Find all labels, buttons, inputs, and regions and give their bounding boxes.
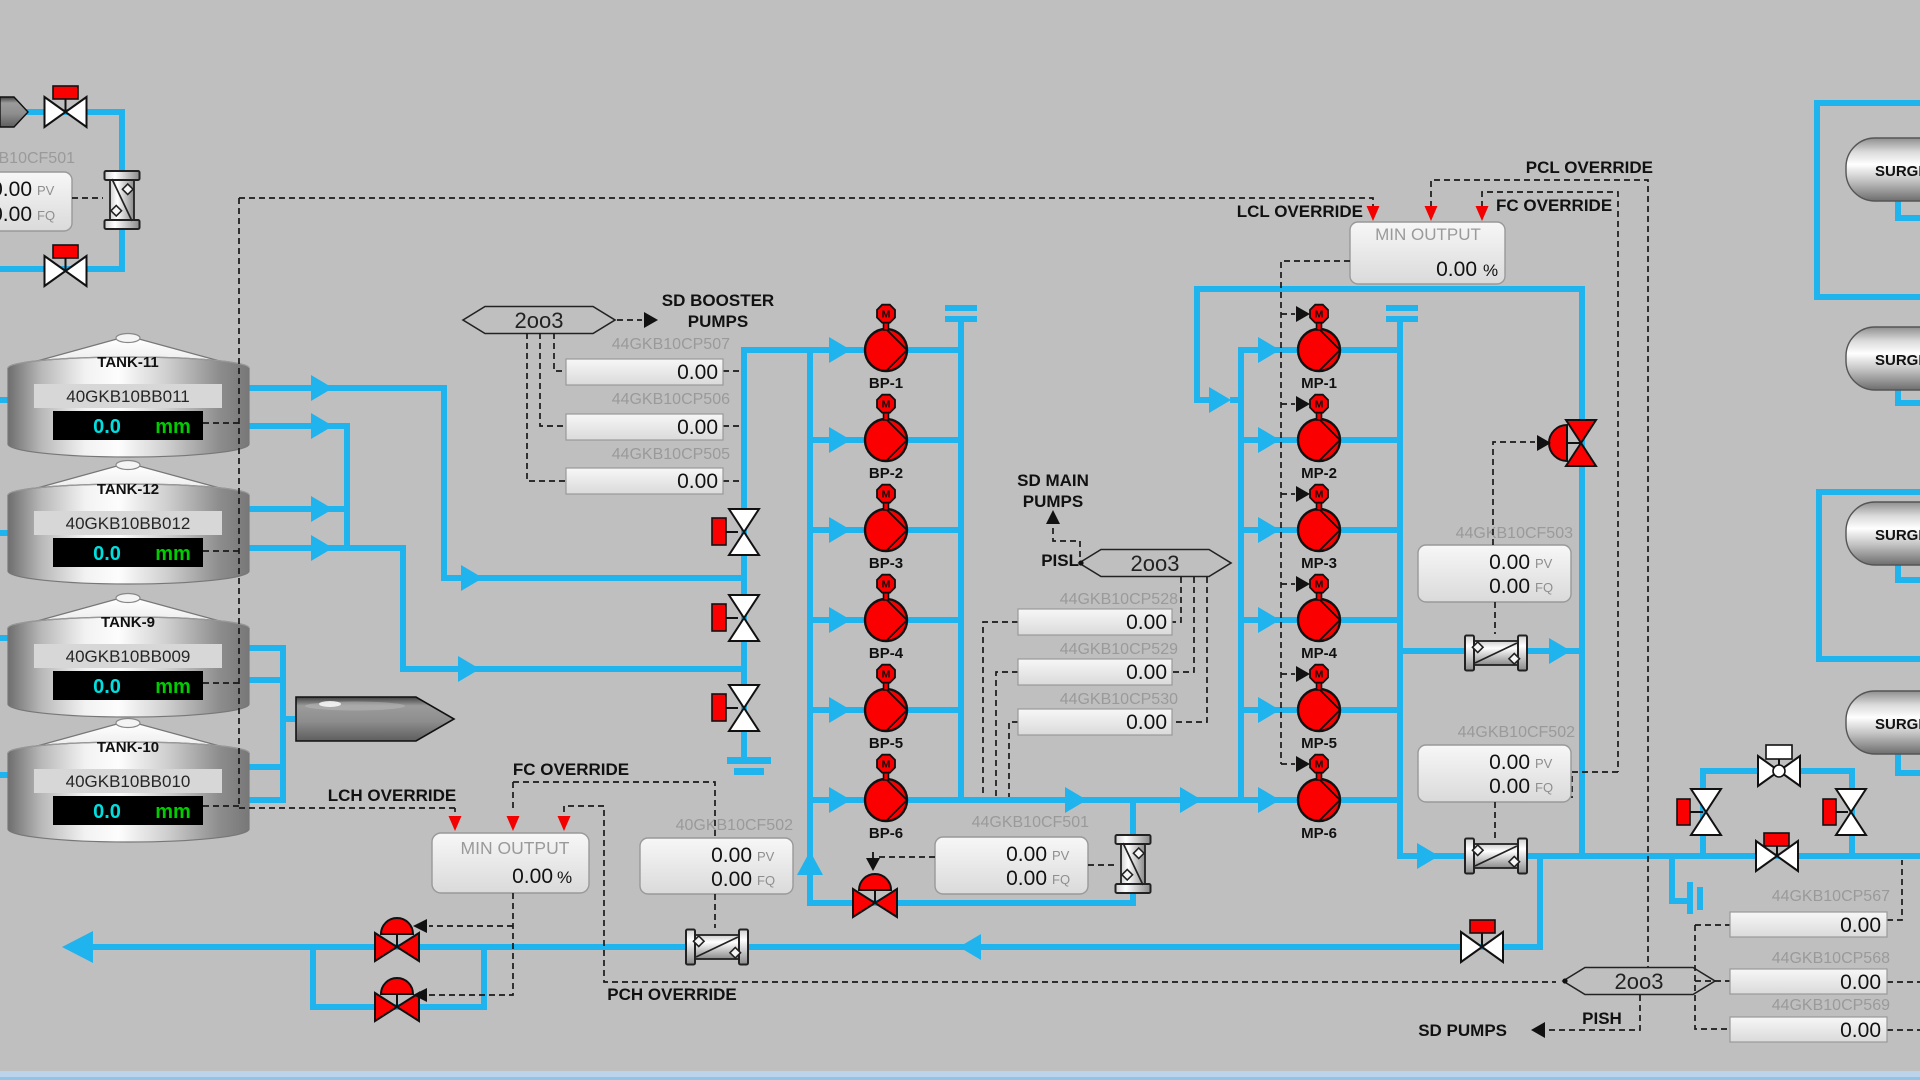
wire surge tank 1 frame [1817,103,1920,297]
dashed CF502 left box to return strainer [714,894,716,928]
wire header1 to header2 link [744,347,812,353]
dashed box to top-left meter [72,197,103,199]
wire TANK-9 left inlet stub [0,635,12,641]
control valve return line B [375,978,419,1021]
flow meter 44GKB10CF501 vertical [1116,835,1151,893]
pump MP-3 [1298,485,1340,572]
label LCL OVERRIDE [1237,202,1363,221]
svg-text:FQ: FQ [37,208,55,223]
label FC OVERRIDE left [513,760,629,779]
inlet arrow top-left (link from other display) [0,97,28,127]
pipe end symbol above booster discharge header [945,305,977,322]
wire strainer branch to recirculation riser [1400,638,1579,664]
svg-text:44GKB10CP567: 44GKB10CP567 [1772,888,1890,905]
box 44GKB10CF501 PV FQ [935,837,1088,894]
svg-text:0.00: 0.00 [1126,711,1167,734]
wire surge tank 3 outlet [1898,563,1920,580]
surge tank 1 [1846,138,1920,201]
pump BP-2 [865,395,907,482]
svg-text:SD PUMPS: SD PUMPS [1418,1021,1507,1040]
actuator arrow of booster recirculation valve [866,852,880,871]
svg-text:2oo3: 2oo3 [1615,969,1664,994]
dashed arrow PISL hexagon to SD MAIN PUMPS [1046,510,1080,557]
svg-text:FQ: FQ [1535,580,1553,595]
svg-text:0.00: 0.00 [1489,751,1530,774]
svg-text:40GKB10BB011: 40GKB10BB011 [66,387,190,406]
valve inlet top-left with red actuator box [45,86,87,127]
label 44GKB10CP530 [1060,691,1178,708]
label PISL [1041,551,1079,570]
svg-text:LCL OVERRIDE: LCL OVERRIDE [1237,202,1363,221]
svg-text:44GKB10CP505: 44GKB10CP505 [612,446,730,463]
box MIN OUTPUT left [432,833,589,893]
svg-text:40GKB10BB012: 40GKB10BB012 [66,514,191,533]
svg-text:MP-3: MP-3 [1301,555,1337,572]
svg-text:0.00: 0.00 [1489,551,1530,574]
svg-text:44GKB10CP569: 44GKB10CP569 [1772,997,1890,1014]
svg-text:MP-6: MP-6 [1301,825,1337,842]
arrow into return valve B [413,988,427,1002]
label 40GKB10CF501 top-left [0,150,75,167]
wire BP-4 branch and discharge [812,607,961,633]
svg-text:FC OVERRIDE: FC OVERRIDE [1496,196,1612,215]
svg-text:PV: PV [1052,848,1070,863]
dashed FC override left network [513,782,715,836]
arrows into MP motors [1296,306,1310,772]
svg-text:MP-4: MP-4 [1301,645,1337,662]
wire surge tank 2 outlet [1898,388,1920,403]
wire TANK-9 outlets to collector [246,648,283,680]
label 44GKB10CP529 [1060,641,1178,658]
wire main pumps suction header [1238,347,1244,800]
svg-text:LCH OVERRIDE: LCH OVERRIDE [328,786,456,805]
dashed FC override line right [1482,192,1618,798]
svg-text:BP-3: BP-3 [869,555,903,572]
pump MP-1 [1298,305,1340,392]
pipe end symbol below suction header [727,757,771,775]
dashed stub TANK-12 level to trunk [203,550,239,552]
wire TANK-11 left inlet stub [0,397,12,403]
box 44GKB10CP530 [1018,709,1172,735]
valve ring top with white box [1758,745,1800,786]
label 44GKB10CP568 [1772,950,1890,967]
box 44GKB10CP567 [1730,912,1887,937]
arrow into FC valve [1537,435,1551,451]
svg-text:0.00: 0.00 [1840,1019,1881,1042]
hexagon 2oo3 booster trip [463,307,615,334]
wire return line to tanks [62,931,1543,963]
svg-text:44GKB10CF503: 44GKB10CF503 [1456,525,1574,542]
label FC OVERRIDE right [1496,196,1612,215]
pump MP-2 [1298,395,1340,482]
red arrow PCL into MIN OUTPUT right [1425,206,1438,221]
svg-text:MP-2: MP-2 [1301,465,1337,482]
svg-text:%: % [1483,261,1498,280]
red arrow FC into MIN OUTPUT right [1476,206,1489,221]
label 44GKB10CP506 [612,391,730,408]
tank TANK-11 [8,334,249,458]
svg-text:FQ: FQ [757,873,775,888]
wire inlet top-left to valve and meter [24,112,122,172]
wire BP-3 branch and discharge [812,517,961,543]
label PCL OVERRIDE [1526,158,1653,177]
pump BP-5 [865,665,907,752]
wire TANK-12 left inlet stub [0,530,12,536]
svg-text:0.00: 0.00 [1840,971,1881,994]
dashed CF503 box to FC valve and strainer [1493,442,1535,634]
label LCH OVERRIDE [328,786,456,805]
dashed PISH hexagon to SD PUMPS [1531,995,1640,1038]
dashed LCL override line to MIN OUTPUT right [239,198,1373,207]
surge tank 4 [1846,691,1920,754]
svg-text:44GKB10CP507: 44GKB10CP507 [612,336,730,353]
wire BP-5 branch and discharge [812,697,961,723]
svg-text:PV: PV [757,849,775,864]
wire MP-1 branch and discharge [1241,337,1400,363]
pump BP-6 [865,755,907,842]
wire surge tank 3 frame [1819,492,1920,659]
wire BP-1 branch and discharge [812,337,961,363]
box 44GKB10CP569 [1730,1017,1887,1042]
pump BP-4 [865,575,907,662]
wire main discharge line to surge tanks [1397,843,1920,869]
svg-text:2oo3: 2oo3 [515,308,564,333]
svg-text:PUMPS: PUMPS [1023,492,1083,511]
label 44GKB10CP507 [612,336,730,353]
svg-text:44GKB10CP568: 44GKB10CP568 [1772,950,1890,967]
wire surge tank 4 outlet [1898,752,1920,773]
svg-text:SURGE TANK: SURGE TANK [1875,352,1920,369]
wire TANK-11 top outlet to booster header [246,375,747,591]
svg-text:MP-1: MP-1 [1301,375,1337,392]
svg-text:PCH OVERRIDE: PCH OVERRIDE [607,985,736,1004]
pipe end symbol above main discharge header [1386,305,1418,322]
svg-text:0.00: 0.00 [512,865,553,888]
box 40GKB10CF502 PV FQ left [640,838,793,894]
svg-text:mm: mm [155,416,191,438]
wire TANK-12 top outlet [246,496,350,522]
pipe end symbol right of drain stub [1687,882,1703,914]
box 40GKB10CF501 PV FQ [0,172,72,231]
wire main pumps discharge header [1397,322,1403,856]
svg-text:40GKB10BB009: 40GKB10BB009 [66,647,191,666]
svg-text:0.00: 0.00 [0,178,32,201]
svg-text:40GKB10CF502: 40GKB10CF502 [676,817,794,834]
box 44GKB10CP529 [1018,659,1172,685]
valve ring left [1677,789,1721,835]
wire branch down to return line [1537,853,1543,947]
wire main pumps recirculation return entry [1197,289,1240,413]
recirculation up arrow on feed header [797,851,823,875]
svg-text:SD MAIN: SD MAIN [1017,471,1089,490]
pump BP-1 [865,305,907,392]
svg-text:0.00: 0.00 [1489,575,1530,598]
svg-text:TANK-12: TANK-12 [97,481,159,498]
wire MP-6 branch and discharge [1241,787,1400,813]
svg-text:0.0: 0.0 [93,676,121,698]
wire return bypass loop [313,947,484,1007]
svg-text:0.00: 0.00 [1006,843,1047,866]
svg-text:BP-1: BP-1 [869,375,903,392]
bottom window strip [0,1071,1920,1078]
label 44GKB10CF502 right [1458,724,1576,741]
dashed MIN OUTPUT right to MP motors [1281,261,1350,764]
wire TANK-12 bottom outlet to booster header [246,535,747,682]
dashed LCL override trunk from tanks [239,198,455,808]
svg-text:PV: PV [1535,556,1553,571]
svg-text:BP-2: BP-2 [869,465,903,482]
arrow into return valve A [413,919,427,933]
label 44GKB10CF501 [972,814,1090,831]
valve suction header lower [712,685,759,731]
svg-text:PUMPS: PUMPS [688,312,748,331]
control valve return line A [375,918,419,961]
strainer on main discharge line [1465,839,1527,874]
svg-text:MIN OUTPUT: MIN OUTPUT [461,838,570,858]
label SD PUMPS [1418,1021,1507,1040]
svg-text:40GKB10CF501: 40GKB10CF501 [0,150,75,167]
svg-text:0.00: 0.00 [711,844,752,867]
valve main line at ring with red box [1756,833,1798,871]
pump MP-5 [1298,665,1340,752]
label 44GKB10CP567 [1772,888,1890,905]
red arrow LCH into MIN OUTPUT left [449,808,462,831]
wire MP-3 branch and discharge [1241,517,1400,543]
box 44GKB10CP507 [566,359,723,385]
dashed CF501 box to meter and valve [876,857,1114,865]
valve outlet top-left with red actuator box [45,245,87,286]
svg-text:FC OVERRIDE: FC OVERRIDE [513,760,629,779]
svg-text:44GKB10CP506: 44GKB10CP506 [612,391,730,408]
red arrow FC into MIN OUTPUT left [507,816,520,831]
svg-text:44GKB10CP530: 44GKB10CP530 [1060,691,1178,708]
wire recirculation drop to flow meter [1130,800,1136,906]
svg-text:44GKB10CP528: 44GKB10CP528 [1060,591,1178,608]
surge tank 2 [1846,327,1920,390]
box 44GKB10CF502 PV FQ right [1418,745,1571,802]
red arrow PCH into MIN OUTPUT left [558,816,571,831]
svg-text:mm: mm [155,543,191,565]
svg-text:TANK-10: TANK-10 [97,739,159,756]
strainer on recirculation branch [1465,636,1527,671]
svg-text:SURGE TANK: SURGE TANK [1875,527,1920,544]
tank TANK-12 [8,461,249,585]
svg-text:0.00: 0.00 [1840,914,1881,937]
svg-text:44GKB10CP529: 44GKB10CP529 [1060,641,1178,658]
svg-text:MP-5: MP-5 [1301,735,1337,752]
dashed stub TANK-11 level to trunk [203,422,239,424]
label 44GKB10CP528 [1060,591,1178,608]
svg-text:SURGE TANK: SURGE TANK [1875,163,1920,180]
svg-text:2oo3: 2oo3 [1131,551,1180,576]
svg-text:TANK-11: TANK-11 [97,354,158,371]
control valve FC recirculation vertical [1549,420,1596,466]
svg-text:0.0: 0.0 [93,416,121,438]
dashed PISL hexagon to pressure boxes [983,577,1207,797]
dashed arrow hexagon to SD BOOSTER PUMPS [617,312,658,328]
svg-text:0.00: 0.00 [1126,661,1167,684]
svg-text:SD BOOSTER: SD BOOSTER [662,291,774,310]
wire BP-2 branch and discharge [812,427,961,453]
dashed hexagon drops to pressure boxes [527,333,741,481]
svg-text:44GKB10CF502: 44GKB10CF502 [1458,724,1576,741]
svg-text:BP-4: BP-4 [869,645,904,662]
dashed stub TANK-9 level to trunk [203,682,239,684]
label SD BOOSTER PUMPS [662,291,774,331]
wire recirculation top line and drop to main line [1194,289,1582,856]
svg-text:44GKB10CF501: 44GKB10CF501 [972,814,1090,831]
pump MP-6 [1298,755,1340,842]
svg-text:PV: PV [37,183,55,198]
valve suction header upper [712,509,759,555]
control valve booster recirculation [853,874,897,917]
wire drain stub on main line [1672,856,1687,901]
wire MP-5 branch and discharge [1241,697,1400,723]
dashed PCH override to MIN OUTPUT left [564,806,1556,982]
label PISH [1582,1009,1622,1028]
svg-text:PV: PV [1535,756,1553,771]
svg-text:%: % [557,868,572,887]
wire TANK-11 bottom outlet down collector [246,413,347,551]
label 44GKB10CP569 [1772,997,1890,1014]
valve on return line with red box [1461,920,1503,962]
hexagon 2oo3 PISH [1562,968,1715,995]
svg-text:0.0: 0.0 [93,801,121,823]
svg-text:0.00: 0.00 [1489,775,1530,798]
box 44GKB10CP505 [566,468,723,494]
svg-text:0.00: 0.00 [677,361,718,384]
wire meter outlet to bottom valve exits left [0,228,122,269]
red arrow LCL into MIN OUTPUT right [1367,206,1380,221]
svg-text:0.00: 0.00 [0,203,32,226]
svg-text:BP-6: BP-6 [869,825,903,842]
svg-text:PISL: PISL [1041,551,1079,570]
svg-text:0.0: 0.0 [93,543,121,565]
svg-text:0.00: 0.00 [1006,867,1047,890]
dashed CF502 right box to main strainer [1494,802,1496,838]
tank TANK-10 [8,719,249,843]
label SD MAIN PUMPS [1017,471,1089,511]
wire booster pump feed header [810,350,1136,903]
svg-text:MIN OUTPUT: MIN OUTPUT [1375,225,1481,244]
strainer on return line [686,930,748,965]
svg-text:0.00: 0.00 [677,470,718,493]
wire MP-2 branch and discharge [1241,427,1400,453]
dashed stub TANK-10 level to trunk [203,805,239,807]
wire TANK-10 left inlet stub [0,772,12,778]
box 44GKB10CP506 [566,414,723,440]
dashed MIN OUTPUT left to return valves [429,893,513,995]
box MIN OUTPUT right [1350,222,1505,284]
dashed PCL override line [1431,180,1648,968]
surge tank 3 [1846,502,1920,565]
svg-text:0.00: 0.00 [677,416,718,439]
svg-text:0.00: 0.00 [1436,258,1477,281]
svg-text:PISH: PISH [1582,1009,1622,1028]
svg-text:TANK-9: TANK-9 [101,614,155,631]
label 44GKB10CF503 [1456,525,1574,542]
valve ring right [1823,789,1866,835]
svg-text:BP-5: BP-5 [869,735,903,752]
svg-text:PCL OVERRIDE: PCL OVERRIDE [1526,158,1653,177]
pump BP-3 [865,485,907,572]
wire surge tank 1 outlet [1898,200,1920,218]
flow meter 40GKB10CF501 top-left [105,171,140,229]
box 44GKB10CF503 PV FQ [1418,545,1571,602]
wire booster suction header [741,347,747,757]
svg-text:40GKB10BB010: 40GKB10BB010 [66,772,191,791]
svg-text:0.00: 0.00 [1126,611,1167,634]
wire booster discharge header [958,322,964,800]
svg-text:0.00: 0.00 [711,868,752,891]
box 44GKB10CP568 [1730,969,1887,994]
svg-text:FQ: FQ [1052,872,1070,887]
wire TANK-9 TANK-10 collector to transfer arrow [246,645,298,800]
svg-text:mm: mm [155,801,191,823]
label 44GKB10CP505 [612,446,730,463]
label 40GKB10CF502 left [676,817,794,834]
dashed PISH transmitters network [1695,860,1920,1030]
pump MP-4 [1298,575,1340,662]
tank TANK-9 [8,594,249,718]
hexagon 2oo3 PISL [1078,550,1231,577]
svg-text:FQ: FQ [1535,780,1553,795]
wire BP-6 branch and discharge main [812,787,1244,813]
svg-text:SURGE TANK: SURGE TANK [1875,716,1920,733]
svg-text:mm: mm [155,676,191,698]
wire bypass ring around main line valve [1703,771,1852,856]
valve suction header middle [712,595,759,641]
wire MP-4 branch and discharge [1241,607,1400,633]
box 44GKB10CP528 [1018,609,1172,635]
label PCH OVERRIDE [607,985,736,1004]
transfer arrow (link to other display) [296,697,454,741]
